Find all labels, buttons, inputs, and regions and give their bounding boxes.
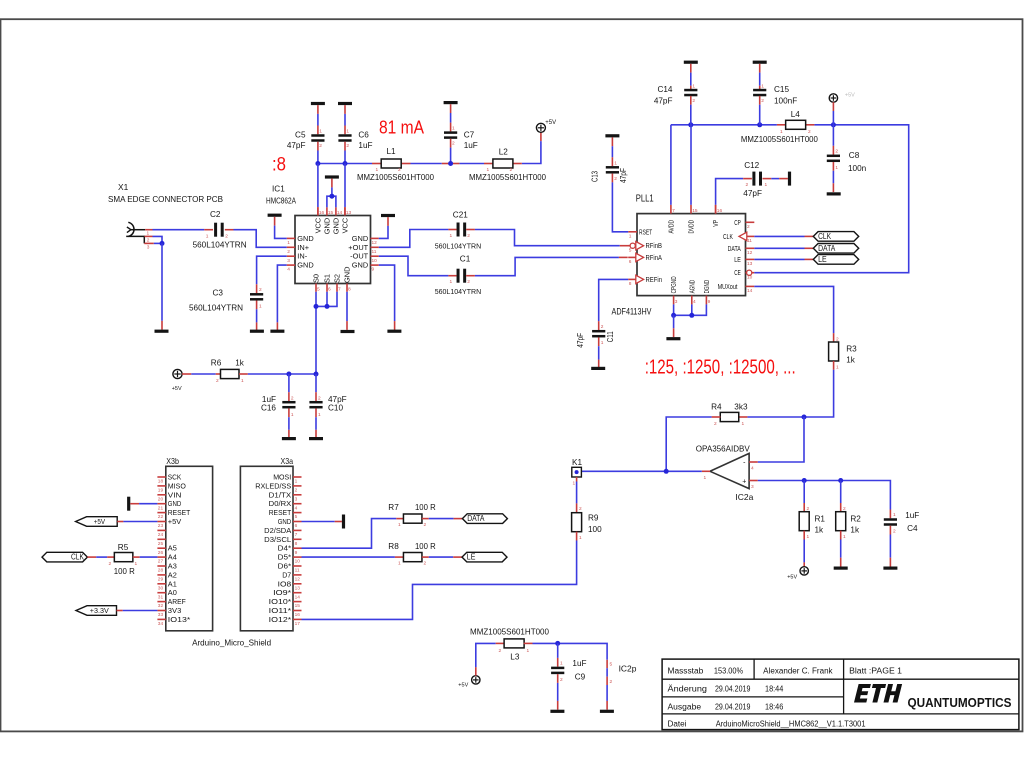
svg-text:PLL1: PLL1 — [636, 194, 654, 205]
svg-text:1: 1 — [259, 304, 262, 310]
svg-text:GND: GND — [332, 218, 341, 234]
svg-text:47pF: 47pF — [619, 168, 628, 183]
svg-text:2: 2 — [424, 522, 427, 528]
svg-text:GND: GND — [323, 218, 332, 234]
svg-text:MMZ1005S601HT000: MMZ1005S601HT000 — [469, 173, 546, 182]
svg-text:100 R: 100 R — [415, 503, 436, 512]
svg-text:8: 8 — [629, 281, 632, 287]
svg-text:Änderung: Änderung — [668, 685, 708, 694]
svg-text:28: 28 — [158, 568, 164, 574]
svg-text:2: 2 — [499, 648, 502, 654]
svg-text:S1: S1 — [323, 274, 332, 283]
svg-text:C10: C10 — [328, 404, 343, 413]
svg-text:DATA: DATA — [728, 246, 741, 253]
svg-text:1uF: 1uF — [464, 141, 478, 150]
svg-text:Datei: Datei — [668, 720, 687, 729]
svg-text:9: 9 — [708, 299, 711, 305]
svg-text:2: 2 — [225, 233, 228, 239]
svg-text:4: 4 — [295, 505, 298, 511]
svg-text:2: 2 — [467, 233, 470, 239]
svg-text:VCC: VCC — [341, 217, 350, 233]
svg-text:2: 2 — [560, 677, 563, 683]
svg-text:MOSI: MOSI — [273, 473, 291, 482]
svg-text:SMA EDGE CONNECTOR PCB: SMA EDGE CONNECTOR PCB — [108, 194, 223, 204]
svg-text:21: 21 — [158, 505, 164, 511]
svg-text:+5V: +5V — [545, 120, 556, 126]
svg-text:REFin: REFin — [646, 277, 663, 284]
svg-text:A0: A0 — [168, 588, 177, 597]
svg-text:2: 2 — [808, 129, 811, 135]
svg-text:+3.3V: +3.3V — [90, 608, 109, 615]
svg-text::125, :1250, :12500, ...: :125, :1250, :12500, ... — [645, 356, 796, 379]
svg-text:2: 2 — [147, 238, 150, 244]
svg-text:R9: R9 — [588, 514, 599, 523]
svg-text:1: 1 — [241, 378, 244, 384]
svg-text:3V3: 3V3 — [168, 606, 182, 615]
svg-text:153.00%: 153.00% — [714, 666, 743, 675]
svg-text:1: 1 — [780, 129, 783, 135]
svg-text:1: 1 — [450, 279, 453, 285]
svg-text:7: 7 — [672, 208, 675, 214]
svg-text:11: 11 — [372, 249, 377, 255]
svg-text:C2: C2 — [210, 210, 221, 219]
svg-text:8: 8 — [348, 286, 351, 292]
svg-text:IO8: IO8 — [278, 579, 292, 588]
svg-text:5: 5 — [610, 662, 613, 668]
svg-text:A5: A5 — [168, 544, 177, 553]
svg-text:1: 1 — [573, 481, 576, 487]
svg-text:11: 11 — [747, 238, 752, 244]
svg-text:IC2p: IC2p — [619, 665, 637, 674]
svg-text:R2: R2 — [850, 514, 861, 523]
svg-text:D5*: D5* — [278, 553, 292, 562]
svg-text:RESET: RESET — [269, 508, 292, 517]
svg-text:+5V: +5V — [458, 683, 468, 689]
svg-text:CLK: CLK — [818, 232, 831, 241]
svg-text:LE: LE — [818, 255, 827, 264]
svg-text:IO9*: IO9* — [273, 588, 291, 597]
svg-text:15: 15 — [692, 208, 698, 214]
svg-text:IO11*: IO11* — [269, 606, 292, 615]
svg-text:20: 20 — [158, 496, 164, 502]
svg-text:30: 30 — [158, 585, 164, 591]
svg-text:31: 31 — [158, 594, 164, 600]
svg-text:2: 2 — [291, 396, 294, 402]
svg-text:1: 1 — [835, 165, 838, 171]
svg-text:Massstab: Massstab — [668, 666, 704, 675]
svg-text:LE: LE — [467, 553, 476, 562]
svg-text:1: 1 — [287, 240, 290, 246]
svg-text:1: 1 — [398, 522, 401, 528]
svg-text:1k: 1k — [850, 525, 860, 534]
svg-text:GND: GND — [168, 499, 182, 508]
svg-text:100nF: 100nF — [774, 96, 797, 105]
svg-text:X3a: X3a — [281, 456, 294, 466]
svg-text:17: 17 — [295, 621, 301, 627]
svg-text:4: 4 — [751, 466, 754, 472]
svg-text:A3: A3 — [168, 562, 177, 571]
svg-text:+5V: +5V — [168, 517, 182, 526]
svg-text:S0: S0 — [312, 274, 321, 283]
svg-text:R5: R5 — [118, 543, 129, 552]
svg-text:2: 2 — [601, 324, 604, 330]
svg-text:3k3: 3k3 — [734, 403, 748, 412]
svg-text:2: 2 — [579, 506, 582, 512]
svg-text:16: 16 — [295, 612, 301, 618]
svg-text:47pF: 47pF — [576, 333, 585, 348]
svg-text:1k: 1k — [815, 525, 825, 534]
svg-text:2: 2 — [835, 149, 838, 155]
svg-text:2: 2 — [610, 679, 613, 685]
svg-text:R4: R4 — [711, 403, 722, 412]
svg-text:13: 13 — [346, 210, 352, 216]
svg-text:3: 3 — [751, 484, 754, 490]
svg-text:C15: C15 — [774, 85, 789, 94]
svg-text:DVDD: DVDD — [689, 220, 696, 234]
svg-text:C16: C16 — [261, 404, 276, 413]
svg-text:HMC862A: HMC862A — [266, 197, 296, 206]
svg-text:IO12*: IO12* — [269, 615, 292, 624]
svg-text:2: 2 — [747, 224, 750, 230]
svg-text:DATA: DATA — [818, 244, 836, 253]
svg-text:AREF: AREF — [168, 597, 186, 606]
svg-text:R8: R8 — [388, 542, 399, 551]
svg-text:18:46: 18:46 — [765, 703, 784, 712]
svg-text:2: 2 — [467, 279, 470, 285]
svg-text:IC1: IC1 — [272, 185, 285, 194]
svg-text:100n: 100n — [848, 164, 867, 173]
svg-text:6: 6 — [328, 286, 331, 292]
svg-text:100: 100 — [588, 525, 602, 534]
svg-text:14: 14 — [337, 210, 343, 216]
svg-text:100 R: 100 R — [415, 542, 436, 551]
svg-text:29.04.2019: 29.04.2019 — [715, 685, 751, 694]
svg-text:GND: GND — [297, 261, 313, 270]
svg-text:5: 5 — [317, 286, 320, 292]
svg-text:29: 29 — [158, 577, 164, 583]
svg-text:-OUT: -OUT — [350, 252, 369, 261]
svg-text:34: 34 — [158, 621, 164, 627]
svg-text:1uF: 1uF — [262, 395, 276, 404]
svg-text:27: 27 — [158, 559, 164, 565]
svg-text:560L104YTRN: 560L104YTRN — [435, 287, 482, 296]
svg-text:IO13*: IO13* — [168, 615, 191, 624]
svg-text:2: 2 — [287, 249, 290, 255]
svg-text:Ausgabe: Ausgabe — [668, 703, 702, 712]
svg-text:25: 25 — [158, 541, 164, 547]
svg-text:RFinA: RFinA — [646, 255, 663, 262]
svg-text:12: 12 — [372, 240, 378, 246]
svg-text:Arduino_Micro_Shield: Arduino_Micro_Shield — [192, 638, 271, 648]
svg-text:MMZ1005S601HT000: MMZ1005S601HT000 — [357, 173, 434, 182]
svg-text:11: 11 — [295, 568, 300, 574]
svg-text:10: 10 — [295, 559, 301, 565]
svg-text:47pF: 47pF — [743, 189, 762, 198]
svg-text:47pF: 47pF — [328, 395, 347, 404]
svg-text:1: 1 — [807, 534, 810, 540]
svg-text:D7: D7 — [282, 570, 291, 579]
svg-text:1: 1 — [487, 167, 490, 173]
svg-text:C4: C4 — [907, 524, 918, 533]
svg-text:1uF: 1uF — [358, 141, 372, 150]
svg-text:1: 1 — [742, 421, 745, 427]
svg-text:32: 32 — [158, 603, 164, 609]
svg-text:CP: CP — [734, 220, 741, 227]
svg-text:GND: GND — [297, 234, 313, 243]
svg-text:2: 2 — [714, 421, 717, 427]
svg-text:CLK: CLK — [723, 234, 733, 241]
svg-text:2: 2 — [295, 488, 298, 494]
svg-text:MMZ1005S601HT000: MMZ1005S601HT000 — [470, 628, 549, 637]
svg-text:A2: A2 — [168, 570, 177, 579]
svg-text:MUXout: MUXout — [718, 284, 738, 291]
svg-text:2: 2 — [614, 176, 617, 182]
svg-text:IN-: IN- — [297, 252, 307, 261]
svg-text:2: 2 — [843, 506, 846, 512]
svg-text:GND: GND — [352, 234, 368, 243]
svg-text:2: 2 — [836, 337, 839, 343]
svg-text:C12: C12 — [744, 161, 759, 170]
svg-text:1k: 1k — [846, 355, 856, 364]
svg-text:X3b: X3b — [166, 456, 179, 466]
svg-text:D0/RX: D0/RX — [269, 499, 292, 508]
svg-text:OPA356AIDBV: OPA356AIDBV — [696, 444, 751, 453]
svg-text:2: 2 — [692, 98, 695, 104]
svg-text:9: 9 — [295, 550, 298, 556]
svg-text:1: 1 — [614, 161, 617, 167]
svg-text:C13: C13 — [590, 171, 599, 182]
svg-text:+: + — [742, 478, 746, 485]
svg-text:1: 1 — [450, 233, 453, 239]
svg-text:1: 1 — [346, 129, 349, 135]
svg-text:1: 1 — [601, 340, 604, 346]
svg-text:33: 33 — [158, 612, 164, 618]
svg-text:6: 6 — [295, 523, 298, 529]
svg-text:VCC: VCC — [314, 217, 323, 233]
svg-text:12: 12 — [747, 250, 753, 256]
svg-text:CLK: CLK — [71, 553, 84, 562]
svg-text:1: 1 — [135, 561, 138, 567]
svg-text::8: :8 — [272, 155, 286, 176]
svg-text:K1: K1 — [572, 458, 582, 467]
svg-text:19: 19 — [158, 488, 164, 494]
svg-text:C1: C1 — [460, 254, 471, 263]
svg-text:R6: R6 — [211, 359, 222, 368]
svg-text:13: 13 — [747, 261, 753, 267]
svg-text:2: 2 — [319, 143, 322, 149]
svg-text:C5: C5 — [295, 130, 306, 139]
svg-text:2: 2 — [318, 396, 321, 402]
svg-text:3: 3 — [147, 245, 150, 251]
svg-text:2: 2 — [761, 98, 764, 104]
svg-text:2: 2 — [893, 529, 896, 535]
svg-text:L4: L4 — [791, 110, 801, 119]
svg-text:IN+: IN+ — [297, 243, 309, 252]
svg-text:2: 2 — [109, 561, 112, 567]
svg-text:100 R: 100 R — [114, 567, 135, 576]
svg-text:C21: C21 — [453, 211, 468, 220]
svg-text:C9: C9 — [575, 673, 586, 682]
svg-text:GND: GND — [352, 261, 368, 270]
svg-text:S2: S2 — [333, 274, 342, 283]
svg-text:+OUT: +OUT — [348, 243, 368, 252]
svg-text:D4*: D4* — [278, 544, 292, 553]
svg-text:RESET: RESET — [168, 508, 191, 517]
svg-text:3: 3 — [287, 258, 290, 264]
svg-text:2: 2 — [424, 561, 427, 567]
svg-text:1: 1 — [692, 84, 695, 90]
svg-text:18:44: 18:44 — [765, 685, 784, 694]
svg-text:1k: 1k — [235, 359, 245, 368]
svg-text:1: 1 — [318, 412, 321, 418]
svg-text:1: 1 — [893, 512, 896, 518]
svg-text:+5V: +5V — [787, 574, 797, 580]
svg-text:CE: CE — [734, 270, 741, 277]
svg-text:IO10*: IO10* — [269, 597, 292, 606]
svg-text:1: 1 — [291, 412, 294, 418]
svg-text:16: 16 — [319, 210, 325, 216]
svg-text:D1/TX: D1/TX — [269, 490, 292, 499]
svg-text:13: 13 — [295, 585, 301, 591]
svg-text:18: 18 — [158, 479, 164, 485]
svg-text:6: 6 — [629, 259, 632, 265]
svg-text:DGND: DGND — [704, 280, 711, 294]
svg-text:1: 1 — [560, 661, 563, 667]
svg-text:4: 4 — [693, 299, 696, 305]
svg-text:47pF: 47pF — [287, 141, 306, 150]
svg-text:26: 26 — [158, 550, 164, 556]
svg-text:MISO: MISO — [168, 481, 186, 490]
svg-text:C7: C7 — [464, 130, 475, 139]
svg-text:A1: A1 — [168, 579, 177, 588]
svg-text:1: 1 — [319, 129, 322, 135]
svg-text:CPGND: CPGND — [671, 276, 678, 293]
svg-text:9: 9 — [372, 267, 375, 273]
svg-text:1: 1 — [836, 365, 839, 371]
svg-text:ADF4113HV: ADF4113HV — [612, 307, 652, 318]
svg-text:L1: L1 — [387, 147, 397, 156]
svg-text:1: 1 — [629, 234, 632, 240]
svg-text:D3/SCL: D3/SCL — [264, 535, 291, 544]
svg-text:12: 12 — [295, 577, 301, 583]
svg-text:8: 8 — [295, 541, 298, 547]
svg-text:GND: GND — [343, 267, 352, 283]
svg-text:R3: R3 — [846, 345, 857, 354]
svg-text:1: 1 — [579, 535, 582, 541]
svg-text:L3: L3 — [510, 652, 520, 661]
svg-text:560L104YTRN: 560L104YTRN — [189, 304, 243, 313]
svg-text:C6: C6 — [358, 130, 369, 139]
svg-text:1: 1 — [376, 167, 379, 173]
svg-text:Alexander C. Frank: Alexander C. Frank — [763, 666, 833, 675]
svg-text:4: 4 — [287, 267, 290, 273]
svg-text:1: 1 — [206, 233, 209, 239]
svg-text:1: 1 — [843, 534, 846, 540]
svg-text:560L104YTRN: 560L104YTRN — [435, 242, 482, 251]
svg-text:AGND: AGND — [689, 280, 696, 294]
svg-text:2: 2 — [398, 167, 401, 173]
svg-text:R1: R1 — [815, 514, 826, 523]
svg-text:SCK: SCK — [168, 473, 182, 482]
svg-text:14: 14 — [747, 288, 753, 294]
svg-text:L2: L2 — [499, 148, 509, 157]
svg-text:1: 1 — [765, 182, 768, 188]
svg-text:AVDD: AVDD — [669, 220, 676, 234]
svg-text:VIN: VIN — [168, 490, 182, 499]
svg-text:5: 5 — [295, 514, 298, 520]
svg-text:A4: A4 — [168, 553, 177, 562]
svg-text:2: 2 — [807, 506, 810, 512]
svg-text:R7: R7 — [388, 503, 399, 512]
svg-text:IC2a: IC2a — [735, 493, 753, 502]
svg-text:Blatt :PAGE 1: Blatt :PAGE 1 — [849, 666, 902, 675]
svg-text:VP: VP — [713, 220, 720, 227]
svg-text:1: 1 — [704, 475, 707, 481]
svg-text:RFinB: RFinB — [646, 243, 663, 250]
svg-text:47pF: 47pF — [654, 96, 673, 105]
svg-text:ArduinoMicroShield__HMC862__V1: ArduinoMicroShield__HMC862__V1.1.T3001 — [716, 720, 866, 729]
svg-text:14: 14 — [295, 594, 301, 600]
svg-text:560L104YTRN: 560L104YTRN — [193, 240, 247, 249]
svg-text:1: 1 — [527, 648, 530, 654]
svg-text:RSET: RSET — [639, 229, 653, 236]
svg-text:+5V: +5V — [845, 93, 855, 99]
svg-text:C3: C3 — [213, 288, 224, 297]
svg-text:29.04.2019: 29.04.2019 — [715, 703, 751, 712]
svg-text:QUANTUMOPTICS: QUANTUMOPTICS — [908, 696, 1012, 710]
svg-text:2: 2 — [746, 182, 749, 188]
svg-text:C8: C8 — [849, 151, 860, 160]
svg-text:23: 23 — [158, 523, 164, 529]
svg-text:1: 1 — [398, 561, 401, 567]
svg-text:1uF: 1uF — [905, 511, 919, 520]
svg-text:10: 10 — [372, 258, 378, 264]
svg-text:2: 2 — [346, 143, 349, 149]
svg-text:LE: LE — [734, 257, 741, 264]
svg-text:2: 2 — [510, 167, 513, 173]
svg-text:+5V: +5V — [172, 386, 182, 392]
svg-text:7: 7 — [338, 286, 341, 292]
svg-text:15: 15 — [295, 603, 301, 609]
svg-text:MMZ1005S601HT000: MMZ1005S601HT000 — [741, 135, 818, 144]
svg-text:C11: C11 — [606, 331, 615, 342]
svg-text:2: 2 — [452, 140, 455, 146]
svg-text:1: 1 — [761, 84, 764, 90]
svg-text:3: 3 — [675, 299, 678, 305]
svg-text:7: 7 — [295, 532, 298, 538]
svg-text:1uF: 1uF — [572, 659, 586, 668]
svg-text:2: 2 — [259, 287, 262, 293]
svg-text:3: 3 — [295, 496, 298, 502]
svg-text:+5V: +5V — [94, 519, 106, 526]
svg-text:GND: GND — [278, 517, 292, 526]
svg-text:16: 16 — [717, 208, 723, 214]
svg-text:81 mA: 81 mA — [379, 117, 425, 138]
svg-text:2: 2 — [216, 378, 219, 384]
svg-text:C14: C14 — [657, 85, 672, 94]
svg-text:D6*: D6* — [278, 562, 292, 571]
svg-text:D2/SDA: D2/SDA — [264, 526, 291, 535]
svg-text:22: 22 — [158, 514, 164, 520]
svg-text:1: 1 — [452, 126, 455, 132]
svg-text:DATA: DATA — [467, 514, 485, 523]
svg-text:RXLED/SS: RXLED/SS — [255, 481, 291, 490]
svg-text:1: 1 — [295, 479, 298, 485]
svg-text:24: 24 — [158, 532, 164, 538]
svg-text:X1: X1 — [118, 182, 129, 192]
svg-text:15: 15 — [328, 210, 334, 216]
